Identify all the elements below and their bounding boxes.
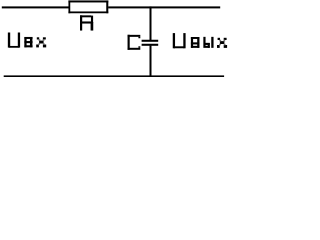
wire vertical lower segment: [150, 46, 152, 77]
background: [0, 0, 232, 77]
U: [173, 33, 175, 48]
resistor R (box): [68, 0, 108, 13]
x (Cyrillic ha): [218, 38, 220, 40]
v (Cyrillic ve): [24, 37, 32, 39]
bottom wire: [4, 75, 224, 77]
y (Cyrillic yeru): [203, 37, 205, 48]
wire vertical upper segment: [150, 6, 152, 40]
v (Cyrillic ve): [191, 37, 200, 39]
capacitor C1 bottom plate: [142, 44, 159, 46]
U: [8, 33, 10, 48]
label R: [80, 15, 93, 30]
wire top-right segment: [108, 6, 220, 8]
label C: [128, 35, 141, 50]
label Uvx (input voltage): [8, 33, 46, 48]
x (Cyrillic ha): [37, 37, 39, 39]
label Uvyx (output voltage): [173, 33, 227, 48]
capacitor C1 top plate: [142, 40, 159, 42]
wire top-left segment: [2, 6, 69, 8]
